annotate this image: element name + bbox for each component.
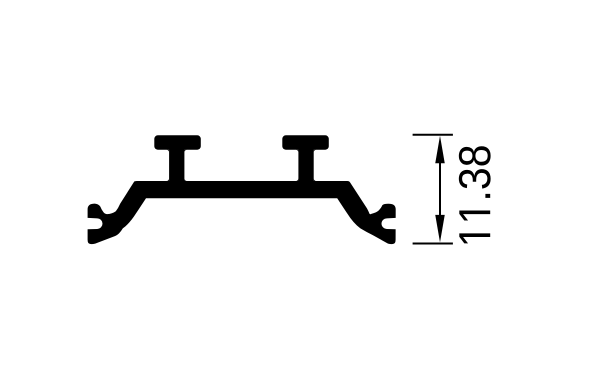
stem fillets right T xyxy=(296,150,317,181)
profile body: horizontal bar + slanted arms + end claws xyxy=(88,181,396,244)
left notch (white cut) xyxy=(83,218,102,230)
top arrowhead xyxy=(435,136,445,164)
right T cap xyxy=(282,135,329,149)
right T stem xyxy=(298,148,313,182)
bottom arrowhead xyxy=(435,215,445,243)
dimension: top extension line xyxy=(413,134,453,136)
left T cap xyxy=(154,135,201,149)
stem fillets left T xyxy=(167,150,188,181)
dimension line xyxy=(439,150,441,230)
left T stem xyxy=(169,148,184,182)
dimension: bottom extension line xyxy=(413,242,453,244)
dimension text 11.38 xyxy=(459,146,491,243)
right notch (white cut) xyxy=(382,218,401,230)
